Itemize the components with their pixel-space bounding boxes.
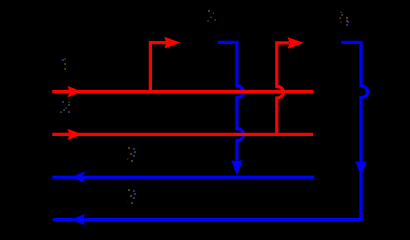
wire 6: blue horizontal line (third, y=177.2) <box>52 176 314 179</box>
svg-text:4: 4 <box>123 191 131 207</box>
wire 7: blue drop from node B with hop, down to bottom rail corner <box>341 42 367 219</box>
label 2 speckle remnants <box>60 101 70 113</box>
arrowhead of red branch 1 (right-pointing, end of line) <box>164 37 180 49</box>
svg-text:B: B <box>336 7 347 26</box>
arrowhead on wire 8 (left-pointing, mid-line) <box>71 214 85 225</box>
arrowhead of red branch 2 (right-pointing, end of line) <box>288 37 304 49</box>
label 3 speckle remnants <box>127 147 136 162</box>
svg-text:2: 2 <box>58 103 65 118</box>
arrowhead on wire 6 (left-pointing, mid-line) <box>71 172 85 183</box>
label 1 speckle remnants <box>62 58 66 70</box>
node A label speckle remnants <box>207 10 216 22</box>
arrowhead on wire 1 (right-pointing, mid-line) <box>68 86 82 97</box>
wire 2: red horizontal line (second, y=134.4) <box>52 133 313 136</box>
node B label speckle remnants <box>339 11 349 26</box>
wire 1: red horizontal line (top, y=91.6) <box>52 90 313 93</box>
arrowhead of blue drop A (down-pointing, onto wire 6) <box>231 160 242 176</box>
wire 8: blue horizontal line (bottom, y=219.6) <box>53 218 356 221</box>
svg-text:A: A <box>204 6 216 25</box>
wire 3: red branch up from wire 1 at x=150.4 to top rail <box>150 43 166 92</box>
svg-text:1: 1 <box>60 61 67 76</box>
wire 5: blue drop from node A with hops over wires 1 and 2 <box>218 42 244 164</box>
arrowhead on blue drop B (down-pointing, mid-line) <box>355 161 366 177</box>
wire 4: red branch up from wire 2 at x=276.8 with hop over wire 1 <box>277 43 289 134</box>
svg-text:3: 3 <box>123 149 131 165</box>
arrowhead on wire 2 (right-pointing, mid-line) <box>68 129 82 140</box>
label 4 speckle remnants <box>127 189 136 204</box>
